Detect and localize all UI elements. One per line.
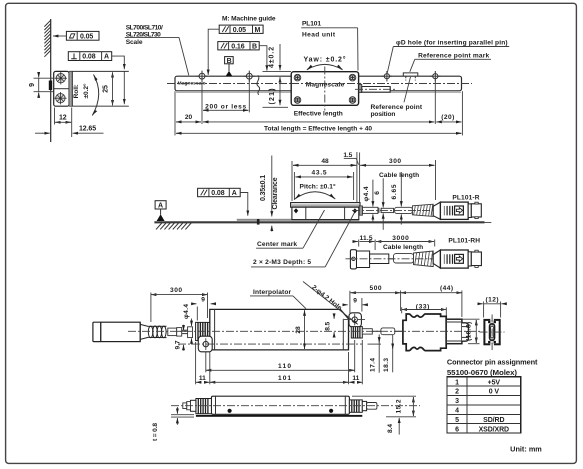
svg-text:(20): (20)	[441, 114, 454, 121]
svg-text:(44): (44)	[440, 285, 453, 292]
label M: Machine guide	[222, 15, 276, 22]
head screws	[294, 74, 356, 103]
cable rod 1	[363, 207, 378, 213]
svg-text:t = 0.8: t = 0.8	[152, 423, 159, 441]
svg-text:(33): (33)	[416, 303, 430, 310]
svg-text:2 × 2-M3 Depth: 5: 2 × 2-M3 Depth: 5	[253, 259, 311, 266]
svg-text:11: 11	[352, 375, 359, 382]
svg-text:4±0.2: 4±0.2	[269, 47, 276, 68]
svg-text:1.5: 1.5	[343, 152, 352, 159]
cable cylinder	[395, 207, 413, 213]
svg-text:PL101-R: PL101-R	[452, 194, 479, 201]
svg-text:8.5: 8.5	[325, 321, 332, 330]
output cylinder	[381, 328, 395, 335]
wall hatching	[44, 20, 50, 57]
RH wire	[389, 258, 394, 260]
svg-text:3000: 3000	[392, 235, 409, 242]
svg-text:5: 5	[455, 417, 459, 424]
flatness frame 0.05	[66, 31, 99, 40]
diameter callout 6	[374, 178, 383, 230]
reference point mark symbol	[403, 73, 418, 81]
svg-text:48: 48	[321, 158, 329, 165]
dimension (33)	[402, 303, 447, 317]
input connector left cap	[93, 322, 101, 341]
connector tip	[468, 202, 481, 218]
svg-text:20: 20	[185, 114, 193, 121]
RH rod	[394, 254, 414, 263]
left strain relief	[196, 322, 211, 340]
output rod	[362, 329, 372, 334]
scale mounting screw 1	[196, 71, 207, 82]
dimension 9	[29, 73, 53, 98]
output wire taper	[372, 330, 381, 332]
svg-text:9: 9	[29, 83, 36, 87]
phi 4.4 callout bottom view	[183, 304, 192, 345]
thin view body	[211, 396, 349, 414]
input connector body	[101, 322, 140, 341]
datum A box and triangle	[155, 201, 166, 221]
svg-text:0.05: 0.05	[80, 33, 93, 40]
svg-text:0.08: 0.08	[211, 190, 224, 197]
break squiggle in bar	[257, 75, 260, 94]
RH cable body	[357, 251, 389, 268]
pin table	[447, 377, 521, 434]
input connector taper	[140, 322, 148, 341]
svg-text:SL700/SL710/: SL700/SL710/	[126, 25, 163, 32]
reference crosshair 2	[430, 71, 440, 81]
M3 hole diamonds	[294, 208, 357, 213]
RH connector body	[433, 250, 468, 268]
svg-text:6: 6	[374, 191, 381, 195]
scale strip side view	[237, 219, 359, 221]
pitch arc	[295, 183, 336, 199]
svg-text:11.5: 11.5	[360, 235, 373, 242]
label Center mark	[256, 210, 324, 248]
scale mounting screw 2	[244, 71, 255, 82]
svg-text:Unit: mm: Unit: mm	[510, 445, 542, 454]
svg-text:9.7: 9.7	[174, 340, 181, 349]
diameter callout phi 4.4	[363, 180, 373, 222]
dimension 8.4	[387, 418, 399, 435]
svg-text:6.65: 6.65	[391, 184, 398, 199]
dimension 8.5	[325, 313, 334, 337]
dimension 9 bottom-left	[192, 297, 216, 321]
cable rod 2	[381, 208, 393, 212]
dimension (20)	[436, 114, 461, 122]
label Yaw ±0.2°	[304, 56, 346, 64]
scale cross-section	[54, 71, 69, 106]
output connector molex body	[403, 314, 469, 351]
thin view right collar rod tip	[362, 401, 377, 410]
svg-text:A: A	[104, 54, 109, 61]
head unit side view body	[292, 207, 359, 219]
feature frame // 0.05 M	[208, 25, 263, 75]
table heading	[447, 357, 538, 377]
svg-text:3: 3	[455, 398, 459, 405]
svg-text:φD hole (for inserting paralle: φD hole (for inserting parallel pin)	[396, 39, 508, 46]
phi D hole crosshair	[382, 71, 392, 81]
cable from head: flange	[359, 206, 362, 215]
svg-text:position: position	[371, 111, 396, 118]
rod between head and bar (top view)	[355, 84, 396, 92]
label PL101-R	[452, 194, 479, 201]
dimension 300 bottom	[151, 287, 208, 322]
svg-text:Interpolator: Interpolator	[253, 289, 292, 296]
top-right mounting ear	[349, 313, 361, 327]
svg-text:B: B	[227, 58, 232, 65]
svg-text:Connector pin assignment: Connector pin assignment	[447, 357, 538, 366]
dimension 300 cable length	[360, 158, 436, 200]
datum B box and triangle	[225, 57, 234, 77]
upper hole axis line	[344, 319, 365, 321]
svg-text:2: 2	[455, 389, 459, 396]
dimension 28	[295, 310, 305, 349]
svg-text:17.4: 17.4	[370, 358, 377, 372]
feature frame // 0.16 B	[218, 42, 267, 71]
svg-text:6: 6	[455, 426, 459, 433]
screw upper	[55, 72, 67, 84]
machine mounting surface	[154, 221, 491, 223]
dimension t = 0.8	[152, 407, 194, 441]
svg-text:43.5: 43.5	[312, 169, 327, 176]
head unit top view	[291, 72, 358, 106]
label Interpolator	[250, 289, 306, 309]
dimension (44)	[401, 285, 462, 317]
dimension 11.5	[353, 235, 376, 250]
cable center line	[352, 209, 433, 211]
RH cable left cap	[350, 250, 356, 269]
svg-text:Cable length: Cable length	[383, 244, 423, 251]
thin view left collar and tip	[183, 400, 196, 411]
yaw arc	[307, 64, 343, 69]
svg-text:A: A	[158, 202, 163, 209]
svg-text:M: Machine guide: M: Machine guide	[222, 15, 276, 22]
svg-text:4: 4	[455, 408, 459, 415]
main center line	[128, 330, 398, 332]
head unit side view flange	[291, 203, 360, 208]
svg-text:Yaw: ±0.2°: Yaw: ±0.2°	[304, 56, 346, 64]
center mark tick	[257, 219, 260, 225]
dimension 17.4	[368, 335, 382, 373]
roll arc	[92, 75, 98, 116]
label 2x 2-M3 Depth 5	[251, 213, 355, 267]
RH center line	[346, 258, 434, 260]
dimension Total length	[176, 125, 461, 133]
input cable cylinder	[177, 328, 182, 337]
svg-text:φ4.4: φ4.4	[363, 186, 370, 201]
svg-text:B: B	[252, 43, 257, 50]
label 2-phi4.2 Hole	[303, 282, 358, 325]
dimension 1.5	[343, 152, 359, 203]
svg-text:0.16: 0.16	[231, 43, 244, 50]
leader arrow to wall	[53, 35, 66, 37]
label Reference point position	[371, 77, 423, 118]
dimension Effective length	[203, 111, 434, 122]
thin view center line	[171, 405, 420, 407]
svg-text:15.2: 15.2	[395, 399, 402, 413]
svg-text:Pitch: ±0.1°: Pitch: ±0.1°	[300, 183, 336, 191]
dimension 25	[103, 72, 113, 105]
svg-text:12.65: 12.65	[79, 126, 96, 133]
right strain relief	[351, 327, 362, 338]
dimension 110	[206, 340, 355, 372]
label PL101 Head unit	[301, 21, 358, 71]
dimension 9.7	[174, 325, 186, 351]
svg-text:Center mark: Center mark	[257, 241, 297, 248]
wall line	[50, 19, 52, 142]
svg-text:(12): (12)	[486, 296, 499, 303]
head unit cross-section	[69, 71, 72, 106]
Magnescale small logo on bar	[178, 81, 207, 86]
RH connector tip	[468, 250, 481, 267]
svg-text:±0.2°: ±0.2°	[82, 83, 90, 98]
svg-text:110: 110	[278, 363, 291, 370]
surface hatching	[156, 223, 191, 229]
svg-text:200 or less: 200 or less	[205, 103, 246, 110]
label Roll ±0.2°	[73, 83, 90, 98]
Magnescale text on head	[306, 82, 345, 89]
svg-text:Effective length: Effective length	[294, 111, 343, 118]
bottom-left mounting ear	[198, 336, 212, 352]
label phi D hole	[387, 39, 509, 73]
input cable braid coils	[148, 326, 166, 338]
dimension 4±0.2	[263, 44, 292, 72]
dimension 3000	[376, 235, 435, 251]
center line over output connector	[398, 330, 481, 332]
thin view screws	[228, 409, 334, 413]
dimension 11 left	[196, 342, 210, 384]
mounting plate t=0.8	[196, 415, 362, 417]
perpendicularity frame 0.08 A	[68, 52, 111, 61]
thin view left strain relief	[196, 399, 212, 414]
svg-text:Head unit: Head unit	[302, 31, 336, 38]
svg-text:Total length = Effective lengt: Total length = Effective length + 40	[264, 125, 372, 132]
svg-text:9: 9	[353, 297, 357, 304]
svg-text:PL101: PL101	[302, 21, 321, 28]
connector front view	[484, 319, 499, 346]
svg-text:0.35±0.1: 0.35±0.1	[260, 175, 267, 201]
input cable rod	[168, 328, 177, 336]
thin view right strain relief	[349, 400, 362, 412]
dimension 12	[55, 108, 72, 138]
dimension 20	[176, 114, 201, 122]
svg-text:28: 28	[295, 326, 302, 334]
svg-text:18.3: 18.3	[383, 358, 390, 372]
svg-text:Reference point: Reference point	[371, 104, 423, 111]
svg-text:500: 500	[370, 285, 382, 292]
Unit mm label	[510, 445, 542, 454]
svg-text:Clearance: Clearance	[272, 177, 279, 209]
cable joint	[379, 208, 381, 213]
label PL101-RH	[448, 238, 480, 245]
svg-text:Roll:: Roll:	[73, 84, 80, 98]
diameter callout 6.65	[391, 172, 401, 225]
svg-text:Cable length: Cable length	[379, 172, 419, 179]
svg-text:0 V: 0 V	[489, 389, 500, 396]
svg-text:+5V: +5V	[488, 379, 501, 386]
extension lines top view dims	[175, 80, 462, 136]
svg-text:0.08: 0.08	[82, 54, 95, 61]
dimension 18.3	[383, 335, 393, 373]
dimension 9 bottom-right	[343, 291, 367, 314]
dimension (18.8)	[463, 319, 480, 344]
dimension 500	[351, 285, 401, 311]
head center lines	[291, 67, 360, 111]
dimension 15.2	[352, 396, 416, 417]
svg-text:1: 1	[455, 379, 459, 386]
output wire	[395, 330, 403, 332]
svg-text:PL101-RH: PL101-RH	[448, 238, 480, 245]
screw lower	[54, 92, 66, 104]
dimension 43.5	[294, 169, 353, 200]
feature frame // 0.08 A	[198, 188, 248, 215]
interpolator body	[210, 309, 349, 350]
dimension 48	[292, 158, 357, 201]
dimension 101	[210, 352, 349, 384]
svg-text:25: 25	[103, 85, 110, 93]
svg-text:φ4.4: φ4.4	[183, 304, 190, 319]
label Reference point mark	[410, 52, 491, 72]
input cable flange	[188, 327, 193, 338]
dimension (21)	[263, 77, 289, 107]
svg-text:300: 300	[389, 158, 401, 165]
label SL700/SL710/SL720/SL730 Scale	[125, 25, 189, 76]
front view center lines	[480, 315, 505, 351]
svg-text:55100-0670 (Molex): 55100-0670 (Molex)	[447, 368, 518, 377]
clearance dimension 0.35±0.1	[260, 156, 279, 232]
mounting hole axis line	[178, 343, 362, 345]
svg-text:Scale: Scale	[126, 39, 143, 46]
section top surface line	[69, 70, 129, 72]
svg-text:SD/RD: SD/RD	[483, 417, 504, 424]
dimension 12.65	[35, 126, 104, 134]
svg-text:11: 11	[199, 375, 206, 382]
dimension 11 right	[349, 340, 362, 384]
scale bar body	[175, 76, 462, 92]
section bottom surface line	[69, 105, 129, 107]
svg-text:300: 300	[170, 287, 182, 294]
cable braid	[412, 204, 433, 216]
svg-text:XSD/XRD: XSD/XRD	[479, 426, 509, 433]
svg-text:12: 12	[59, 115, 67, 122]
dimension (12)	[478, 296, 506, 317]
svg-text:A: A	[232, 190, 237, 197]
dimension 200 or less	[203, 103, 248, 110]
connector PL101-R body	[433, 202, 468, 219]
leader from frame to top surface	[112, 56, 125, 104]
svg-text:Reference point mark: Reference point mark	[418, 52, 489, 59]
center dash-dot line of bar	[167, 83, 472, 85]
input cable wire	[182, 330, 188, 333]
svg-text:0.05: 0.05	[233, 27, 246, 34]
svg-text:9: 9	[201, 297, 205, 304]
svg-text:M: M	[255, 27, 261, 34]
svg-text:8.4: 8.4	[387, 424, 394, 433]
mounting pad on wall	[49, 81, 52, 91]
RH braid	[414, 251, 434, 267]
svg-text:101: 101	[278, 375, 291, 382]
